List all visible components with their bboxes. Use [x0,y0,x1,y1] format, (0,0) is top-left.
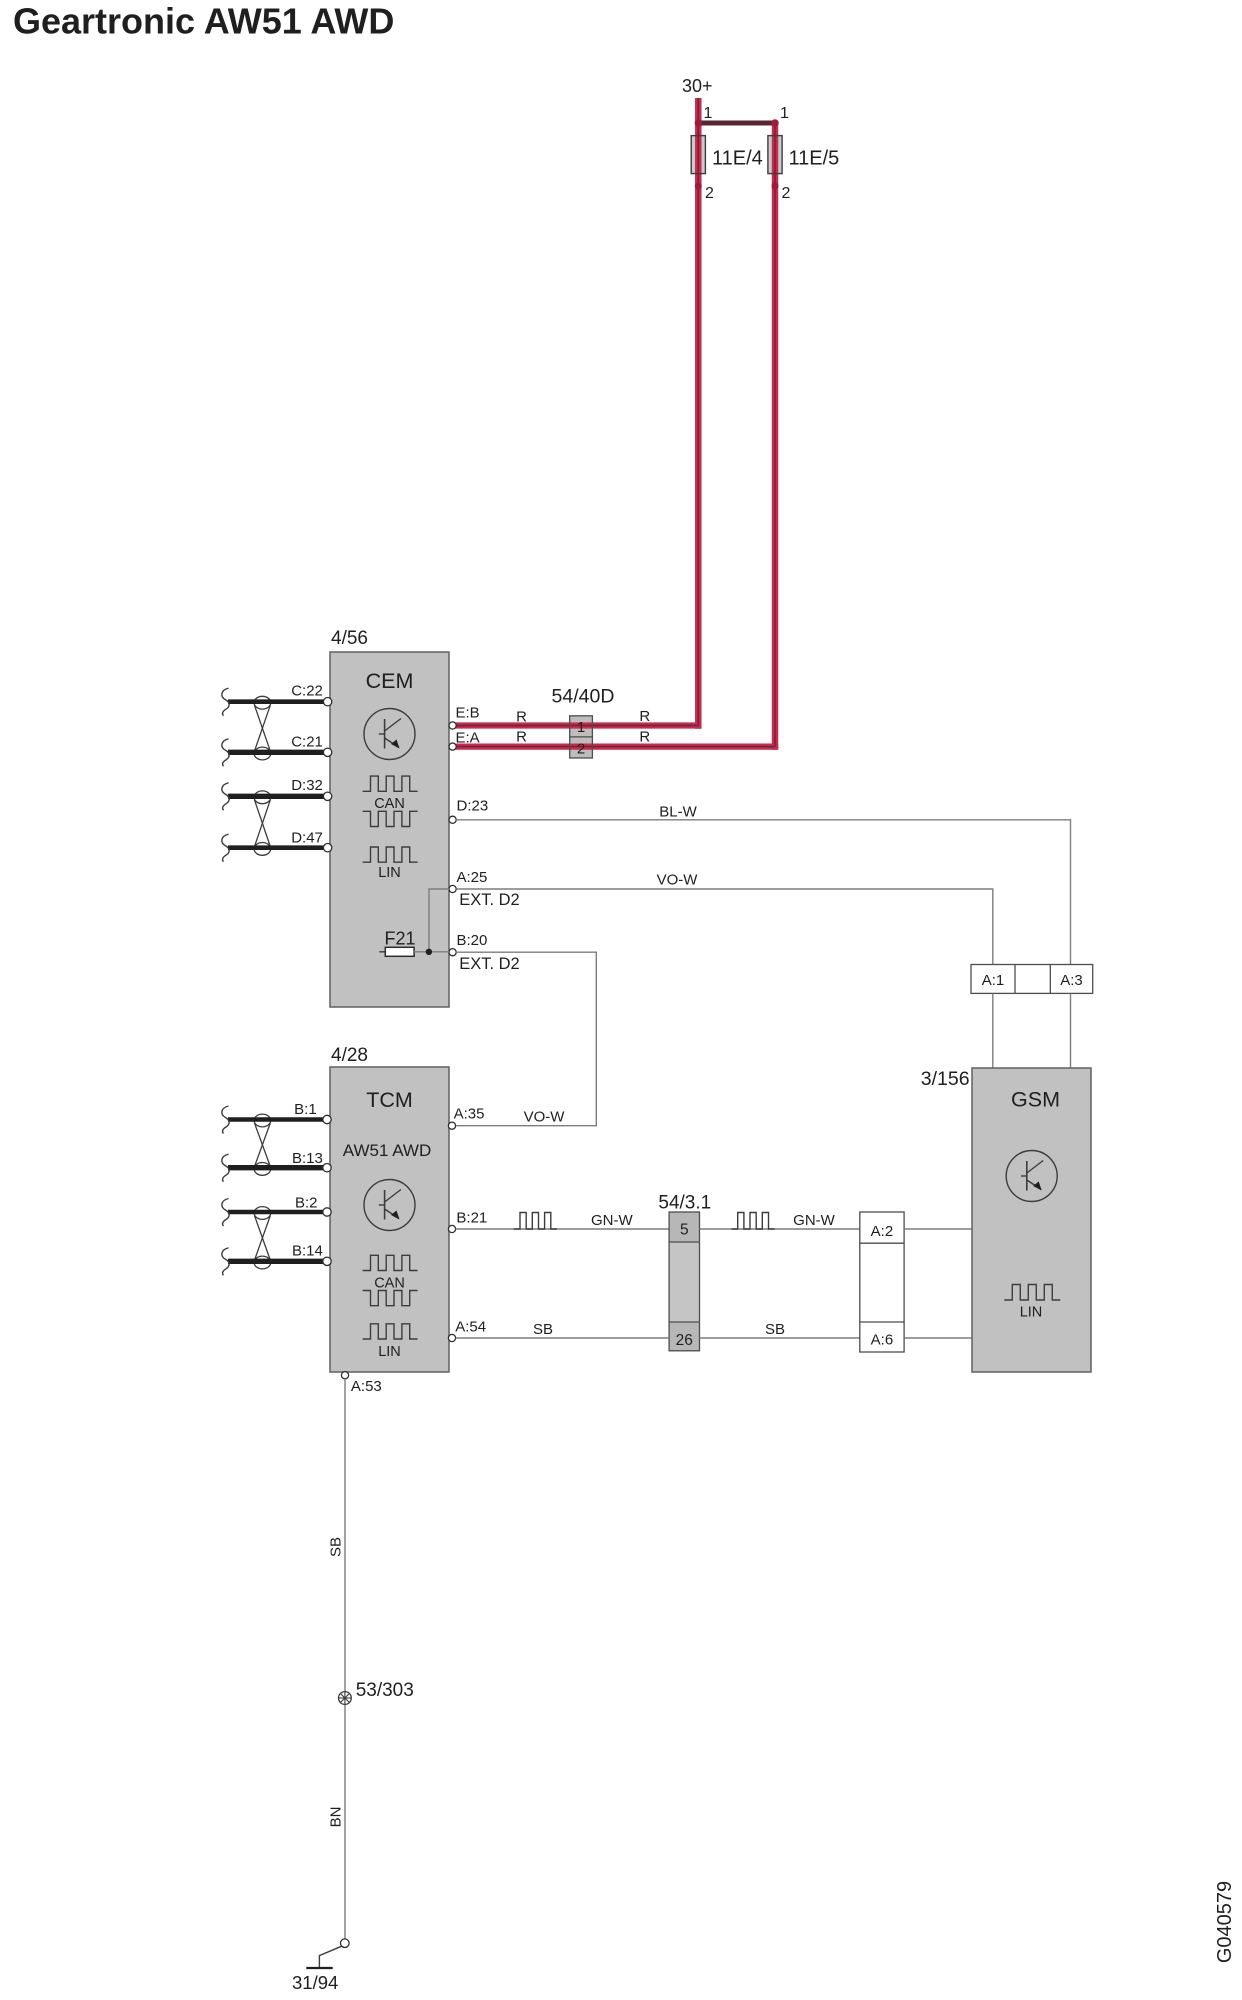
svg-text:LIN: LIN [378,1344,401,1360]
break squiggle B:14 [222,1248,229,1276]
wire dark jumper between fuse pins 1 [698,121,775,126]
pin C:21 [323,748,331,756]
wire twisted pair B:14 [228,1259,324,1264]
svg-text:2: 2 [577,741,585,758]
wire red vertical fuse 11E/5 branch [772,121,779,750]
break squiggle B:1 [222,1106,229,1134]
wire red E:B horizontal CEM to fuse 11E/4 [455,722,702,728]
pin B:2 [323,1208,331,1216]
pin C:22 [323,698,331,706]
wire A:3 to GSM top [1070,993,1072,1068]
node fuse 11E/5 pin 1 [771,119,778,126]
pin A:25 [449,885,456,892]
ground lead [319,1946,341,1967]
svg-text:B:14: B:14 [292,1243,323,1260]
svg-text:GN-W: GN-W [591,1212,633,1229]
svg-text:VO-W: VO-W [657,872,699,889]
svg-text:F21: F21 [385,929,416,949]
svg-text:E:B: E:B [456,705,480,722]
svg-text:4/56: 4/56 [331,628,368,649]
svg-text:11E/4: 11E/4 [712,148,763,170]
svg-text:2: 2 [705,185,714,202]
fuse 11E/4 body [691,136,705,174]
svg-text:R: R [639,729,650,746]
wire SB 54/3.1 to A:6 [700,1337,860,1339]
svg-text:11E/5: 11E/5 [789,148,840,170]
svg-text:BN: BN [328,1807,345,1828]
svg-text:2: 2 [782,185,791,202]
twist symbol pair B:2/B:14 [254,1207,271,1220]
svg-text:B:13: B:13 [292,1150,323,1167]
svg-text:CAN: CAN [374,1276,405,1292]
node fuse 11E/4 pin 1 [695,119,702,126]
break squiggle D:47 [222,834,229,862]
LIN symbol CEM [363,847,418,862]
wire SB/BN A:53 to ground [344,1379,346,1939]
svg-text:AW51 AWD: AW51 AWD [343,1141,431,1160]
wire twisted pair B:2 [228,1210,324,1215]
pin D:32 [323,792,331,800]
ECU TCM 4/28 box [330,1067,449,1372]
wire VO-W A:25 to GSM A:1 [456,889,993,965]
svg-text:R: R [639,708,650,725]
svg-text:B:20: B:20 [457,932,488,949]
wire GN-W 54/3.1 to A:2 [700,1228,860,1230]
svg-text:CAN: CAN [374,796,405,812]
twist symbol pair B:1/B:13 [254,1114,271,1127]
svg-text:4/28: 4/28 [331,1045,368,1066]
node fuse 11E/5 pin 2 [772,183,779,190]
wire SB A:54 to 54/3.1 pin 26 [456,1337,669,1339]
svg-text:54/3.1: 54/3.1 [658,1193,711,1214]
CAN symbol TCM [363,1255,418,1270]
ground bar 31/94 [306,1967,332,1969]
connector 54/40D body [570,716,593,758]
svg-text:A:53: A:53 [351,1378,382,1395]
wire twisted pair D:32 [228,794,324,799]
svg-text:R: R [516,729,527,746]
svg-text:BL-W: BL-W [659,804,697,821]
svg-text:C:22: C:22 [291,683,323,700]
svg-text:TCM: TCM [366,1088,413,1112]
svg-text:SB: SB [328,1537,345,1557]
fuse 11E/4 border [691,136,705,174]
wire red 30+ feed vertical to fuse 11E/4 [695,98,702,729]
pin D:47 [323,844,331,852]
pin A:53 bottom [341,1372,348,1379]
svg-text:LIN: LIN [378,865,401,881]
svg-text:A:3: A:3 [1060,972,1083,989]
twist symbol pair C:22/C:21 [254,696,271,709]
wire F21 to B:20 [414,951,449,953]
svg-text:30+: 30+ [682,76,713,96]
svg-text:A:25: A:25 [457,869,488,886]
node fuse 11E/4 pin 2 [695,183,702,190]
svg-text:5: 5 [680,1222,689,1239]
wire GN-W B:21 to 54/3.1 pin 5 [456,1228,669,1230]
svg-text:GSM: GSM [1011,1088,1060,1112]
svg-text:EXT. D2: EXT. D2 [459,891,520,909]
svg-text:Geartronic AW51 AWD: Geartronic AW51 AWD [13,1,394,42]
svg-text:54/40D: 54/40D [552,686,615,708]
pin B:20 [449,949,456,956]
wire BL-W D:23 to GSM A:3 [456,820,1070,965]
connector 54/40D border [570,716,593,758]
svg-text:1: 1 [577,719,585,736]
svg-text:53/303: 53/303 [356,1680,414,1701]
wire core line right vertical [774,123,776,747]
junction dot F21 node [426,949,432,955]
ECU CEM 4/56 box [330,652,449,1007]
break squiggle B:13 [222,1154,229,1182]
pulse symbol on B:21 wire [514,1213,557,1230]
svg-text:3/156: 3/156 [921,1068,970,1090]
svg-text:E:A: E:A [456,730,480,747]
svg-text:D:32: D:32 [291,777,323,794]
pin E:B [449,722,456,729]
transistor symbol TCM [364,1180,415,1231]
svg-text:A:1: A:1 [982,972,1005,989]
wire twisted pair C:22 [228,699,324,704]
svg-text:C:21: C:21 [291,734,323,751]
svg-text:1: 1 [704,105,713,122]
transistor symbol CEM [364,709,415,760]
wire A:2 to GSM [904,1228,972,1230]
svg-text:A:35: A:35 [454,1106,485,1123]
svg-text:B:2: B:2 [295,1194,318,1211]
LIN symbol TCM [363,1324,418,1339]
svg-text:GN-W: GN-W [793,1212,835,1229]
connector A:2/A:6 [860,1212,904,1352]
svg-text:D:47: D:47 [291,829,323,846]
splice 53/303 [339,1692,352,1705]
svg-text:SB: SB [765,1321,785,1338]
svg-text:31/94: 31/94 [292,1972,338,1993]
connector A:1/A:3 [971,965,1093,994]
internal wire A:25 to F21 junction [429,889,449,952]
CAN symbol CEM [363,776,418,791]
wire A:1 to GSM top [992,993,994,1068]
wire core line E:A [455,746,775,748]
pulse symbol on GN-W wire right [732,1213,775,1230]
svg-text:CEM: CEM [366,669,414,693]
wire twisted pair D:47 [228,845,324,850]
svg-text:EXT. D2: EXT. D2 [459,955,520,973]
break squiggle B:2 [222,1199,229,1227]
wire core line E:B [455,725,698,727]
twist symbol pair D:32/D:47 [254,791,271,804]
ground terminal circle [341,1939,350,1948]
pin D:23 [449,816,456,823]
svg-text:26: 26 [676,1332,693,1349]
pin E:A [449,743,456,750]
svg-text:D:23: D:23 [457,798,489,815]
wire twisted pair C:21 [228,750,324,755]
break squiggle D:32 [222,783,229,811]
svg-text:A:54: A:54 [455,1319,486,1336]
wire A:6 to GSM [904,1337,972,1339]
pin A:54 [448,1334,455,1341]
fuse 11E/5 border [768,136,782,174]
wire twisted pair B:13 [228,1165,324,1170]
break squiggle C:21 [222,739,229,767]
break squiggle C:22 [222,688,229,716]
svg-text:1: 1 [780,105,789,122]
pin B:1 [323,1115,331,1123]
pin B:21 [448,1225,455,1232]
ECU GSM 3/156 box [972,1068,1091,1372]
fuse 11E/5 body [768,136,782,174]
wire EXT D2 B:20 to TCM A:35 [456,952,596,1125]
svg-text:B:21: B:21 [456,1210,487,1227]
svg-text:A:2: A:2 [871,1223,894,1240]
pin B:14 [323,1257,331,1265]
LIN symbol GSM [1004,1285,1060,1301]
transistor symbol GSM [1006,1151,1057,1202]
wire twisted pair B:1 [228,1117,324,1122]
wire red E:A horizontal CEM to fuse 11E/5 [455,743,778,749]
svg-text:B:1: B:1 [294,1101,317,1118]
pin B:13 [323,1164,331,1172]
svg-text:A:6: A:6 [871,1332,894,1349]
svg-text:R: R [516,709,527,726]
svg-text:G040579: G040579 [1214,1881,1236,1963]
svg-text:SB: SB [533,1321,553,1338]
svg-text:LIN: LIN [1020,1305,1043,1321]
svg-text:VO-W: VO-W [524,1109,566,1126]
connector 54/3.1 [669,1212,699,1351]
fuse F21 [379,951,385,953]
wire core line left vertical [697,98,699,726]
pin A:35 [448,1122,455,1129]
